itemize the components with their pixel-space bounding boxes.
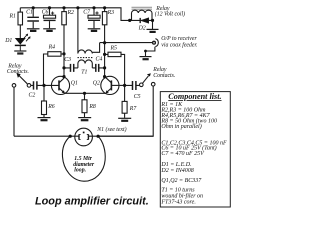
svg-text:C7 = 470 uF 25V: C7 = 470 uF 25V (161, 150, 205, 157)
svg-text:loop.: loop. (74, 168, 86, 174)
svg-text:Contacts.: Contacts. (7, 69, 29, 75)
svg-text:N1 (see text): N1 (see text) (96, 126, 126, 133)
svg-text:Ohm in parallel): Ohm in parallel) (161, 123, 201, 130)
svg-text:Component list.: Component list. (168, 92, 221, 101)
svg-text:C5: C5 (134, 94, 141, 100)
svg-text:T1: T1 (81, 70, 87, 76)
svg-text:FT37-43 core.: FT37-43 core. (160, 198, 195, 205)
svg-text:wound bi-filer on: wound bi-filer on (161, 192, 203, 199)
svg-text:C4: C4 (96, 55, 103, 62)
svg-text:R6: R6 (47, 104, 55, 110)
svg-text:Loop amplifier circuit.: Loop amplifier circuit. (35, 195, 149, 207)
svg-text:C7: C7 (83, 10, 91, 16)
svg-text:Contacts.: Contacts. (153, 73, 175, 79)
svg-text:C6: C6 (42, 10, 49, 16)
svg-text:C2: C2 (29, 93, 36, 99)
svg-text:Q1,Q2 = BC337: Q1,Q2 = BC337 (161, 178, 202, 184)
svg-text:R2: R2 (67, 10, 75, 16)
svg-text:R3: R3 (107, 10, 115, 16)
svg-text:via coax feeder.: via coax feeder. (161, 41, 197, 48)
svg-text:Q1: Q1 (71, 81, 78, 87)
svg-text:D1: D1 (4, 38, 12, 44)
svg-text:R7: R7 (129, 106, 138, 112)
svg-text:R1: R1 (9, 14, 17, 20)
svg-text:C3: C3 (64, 57, 71, 63)
svg-text:Q2: Q2 (93, 81, 100, 87)
svg-text:R8: R8 (88, 104, 96, 110)
svg-text:D2 = IN4008: D2 = IN4008 (160, 167, 193, 174)
svg-text:O/P to receiver: O/P to receiver (161, 36, 197, 42)
svg-text:D2: D2 (138, 26, 146, 32)
svg-text:(12 Volt coil): (12 Volt coil) (155, 11, 185, 18)
svg-text:R5: R5 (110, 46, 118, 52)
svg-text:C1: C1 (26, 10, 33, 16)
svg-text:R4: R4 (48, 44, 56, 51)
